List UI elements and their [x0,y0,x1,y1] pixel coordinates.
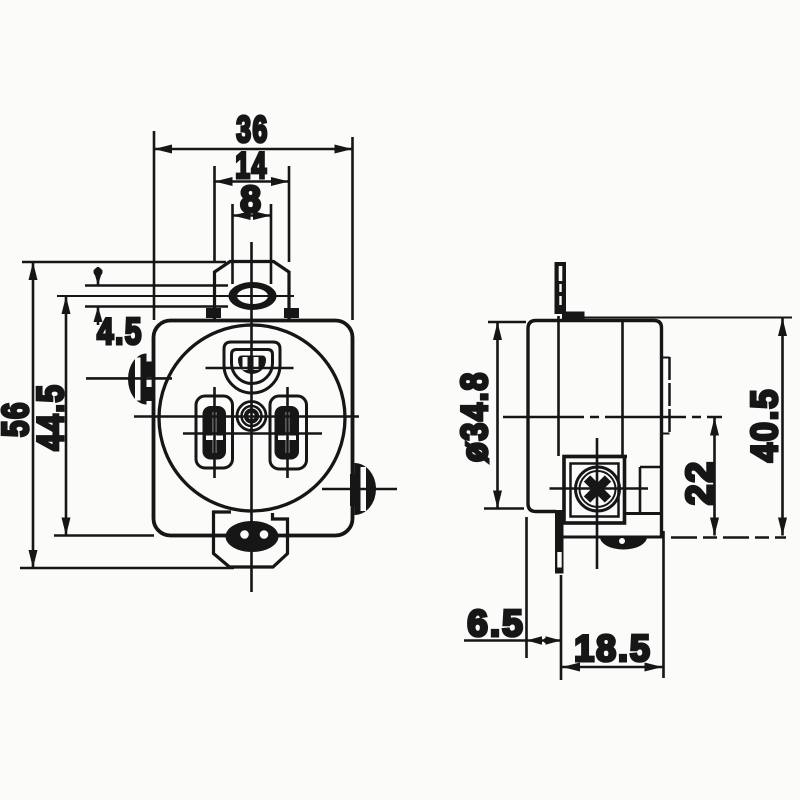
left screw centerline [86,377,172,380]
dim 36 extension line left [153,131,156,320]
svg-text:44.5: 44.5 [31,383,72,450]
dim phi34.8 line with arrows [496,322,499,509]
ground pin hole [238,356,266,375]
leader line slot center [57,295,294,297]
right slot centerline [286,387,289,478]
dim 40.5 top leader [566,317,792,319]
main horizontal centerline [134,415,359,418]
side view horizontal chain centerline [503,416,722,419]
dim 22 line with arrows [713,418,716,536]
dim 56 bottom leader [20,567,234,570]
left slot centerline [213,387,216,478]
dim 44.5 line with arrows [65,296,68,536]
top tab mounting slot oval [229,282,277,310]
side view divider rear [557,316,560,456]
right screw highlight [361,467,367,511]
right side terminal screw head [355,463,377,515]
side view divider front [621,321,624,456]
front view body outline [154,321,353,536]
svg-text:22: 22 [679,460,720,505]
ground slot inner contour [232,350,273,384]
dim 14 extension right [288,166,291,262]
bottom mounting tab outline [214,512,288,567]
bottom tab screw holes [240,530,249,539]
dim 18.5 right extension [662,531,665,678]
left blade slot hole [203,406,227,460]
right blade slot hole [275,406,300,460]
dim 8 line with arrows [233,214,272,217]
svg-text:8: 8 [240,179,263,220]
dim phi34.8 bottom leader [484,507,524,510]
svg-text:40.5: 40.5 [744,388,785,462]
side view strap lower leg [555,510,564,574]
side view bottom tab hole [600,537,647,550]
top tab strap feet [206,308,221,318]
side view step lines [640,466,662,469]
right blade slot outer [270,396,307,469]
left slot highlight [213,412,217,453]
center assembly screw outer circle [237,402,266,431]
side view body outline [528,321,662,538]
right screw centerline [322,488,397,491]
ground slot outer contour [224,342,280,393]
side view face ridge hidden line [668,357,671,434]
dim 44.5 bottom leader [54,534,154,537]
ground slot horizontal centerline [206,367,294,370]
center screw slot [246,411,257,422]
leader line slot bottom [85,305,228,308]
dim 14 extension left [213,166,216,262]
left screw highlight [135,358,141,401]
terminal screw centerline horizontal [550,487,649,490]
dim phi34.8 top leader [488,321,526,324]
left side terminal screw head [128,354,147,405]
shared extension line [560,575,563,680]
main vertical centerline [250,242,253,592]
terminal screw box inner [571,464,619,517]
svg-text:ø34.8: ø34.8 [455,371,496,462]
side view top strap [555,262,567,314]
dim 6.5 extension line [525,517,528,658]
dim 40.5 line with arrows [781,318,784,536]
terminal screw box outer [564,457,625,524]
dim 18.5 line with arrows [562,666,663,669]
svg-text:6.5: 6.5 [467,603,524,644]
side view bottom plate line [556,536,664,539]
terminal screw phillips cross [587,479,608,500]
dim 56 line with arrows [32,262,35,568]
top mounting tab outline [215,262,290,322]
leader line slot top [85,284,228,287]
svg-text:4.5: 4.5 [97,312,143,353]
ground hole highlights [243,357,248,370]
terminal screw head circle [576,467,620,511]
dim 8 extension left [231,204,234,284]
dim 4.5 arrows [97,267,100,286]
side view strap foot [562,312,585,321]
dim 14 line with arrows [215,180,290,183]
terminal screw centerline vertical [596,438,599,569]
left screw neck [146,362,153,378]
right slot highlight [286,412,290,453]
center screw inner circle [242,406,262,426]
dim 36 line with arrows [154,148,353,151]
leader line top tab top [22,261,226,264]
front view face circle [159,325,345,511]
dim 36 extension line right [351,137,354,320]
blade slots horizontal line [183,432,322,435]
dim 8 extension right [270,204,273,284]
dim 6.5 line with arrows [464,639,561,642]
right screw neck [350,474,357,506]
bottom tab slot oval [226,521,279,552]
svg-text:18.5: 18.5 [574,628,652,670]
left blade slot outer [196,396,233,468]
bottom reference chain line [671,536,786,539]
